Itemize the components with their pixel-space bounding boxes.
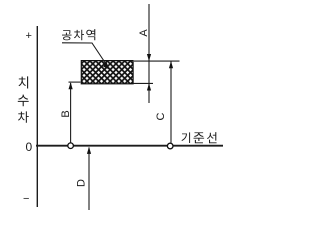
svg-text:D: D xyxy=(76,179,88,187)
svg-text:−: − xyxy=(23,193,29,205)
bottom extension line (right) xyxy=(133,82,153,84)
tolerance zone rectangle (cross-hatched) xyxy=(81,61,133,84)
axis label 치수차 (vertical) xyxy=(19,76,29,88)
vertical axis (dimension-deviation axis) xyxy=(36,26,38,207)
node circle at C on zero line xyxy=(167,143,173,149)
D arrow up (tip at zero line) xyxy=(87,147,91,154)
dimension B: line xyxy=(70,83,72,143)
svg-text:+: + xyxy=(26,30,32,42)
top extension line xyxy=(134,60,180,62)
node circle at B on zero line xyxy=(68,143,74,149)
dimension C: line xyxy=(170,61,172,143)
svg-text:A: A xyxy=(138,29,150,37)
svg-text:B: B xyxy=(60,110,72,117)
dimension A: line xyxy=(148,4,150,103)
A arrow up (tip at bottom extension) xyxy=(147,83,151,90)
C arrow up (tip at top extension) xyxy=(169,61,173,68)
A arrow down (tip at top extension) xyxy=(147,54,151,61)
label 기준선 xyxy=(181,132,190,143)
bottom extension line (left) xyxy=(69,81,81,83)
svg-text:0: 0 xyxy=(26,140,33,154)
label 공차역 with leader xyxy=(62,30,72,40)
svg-text:C: C xyxy=(155,112,167,120)
B arrow up xyxy=(69,82,73,89)
dimension D: line xyxy=(88,148,90,211)
horizontal axis (zero line) xyxy=(36,145,223,147)
